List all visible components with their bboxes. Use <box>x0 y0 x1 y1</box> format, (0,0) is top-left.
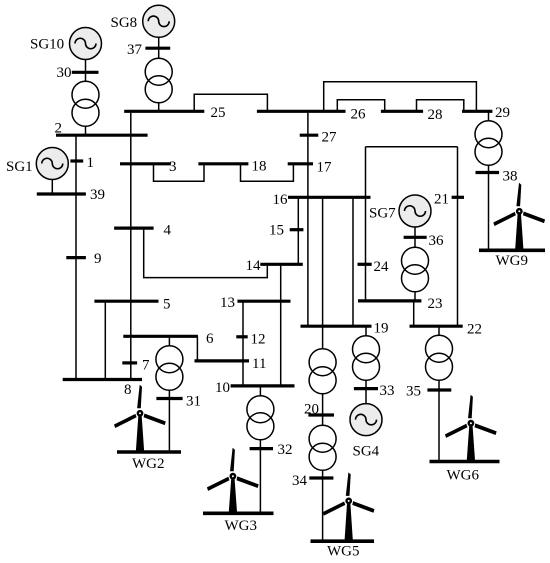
wire T29-38 to bus38 <box>488 165 490 172</box>
bus 5 <box>94 300 158 303</box>
transformer 37-25 <box>145 58 172 103</box>
svg-text:2: 2 <box>55 121 63 137</box>
svg-text:22: 22 <box>467 321 482 337</box>
generator SG7 <box>399 195 431 227</box>
svg-text:35: 35 <box>406 384 421 400</box>
wire bus37 to T37-25 <box>158 48 160 58</box>
wire 16-21 loop top <box>366 146 458 148</box>
wire SG1 to bus39 <box>51 180 53 195</box>
bus 2 <box>56 134 148 137</box>
svg-text:37: 37 <box>127 42 143 58</box>
wind turbine WG9 <box>493 183 545 251</box>
svg-text:25: 25 <box>211 105 226 121</box>
wire 25-2-3-4-5-6-7-8 column <box>130 111 132 379</box>
wire 21-22 right column <box>457 147 459 326</box>
wire bus22 to T22-35 <box>438 326 440 335</box>
bus 22 <box>410 325 463 328</box>
bus 14 <box>260 263 303 266</box>
svg-text:19: 19 <box>374 320 389 336</box>
svg-text:38: 38 <box>503 169 518 185</box>
svg-text:24: 24 <box>374 259 390 275</box>
WG6 base <box>430 460 500 464</box>
wire bus19 to T19-33 <box>365 326 367 336</box>
bus 18 <box>198 162 248 165</box>
svg-text:17: 17 <box>317 160 333 176</box>
wire SG10 to bus30 <box>85 60 87 73</box>
svg-text:32: 32 <box>278 442 293 458</box>
svg-text:11: 11 <box>252 356 266 372</box>
svg-text:8: 8 <box>124 382 132 398</box>
wire T6-31 to bus31 <box>168 390 170 398</box>
transformer 19-33 <box>353 336 380 381</box>
wire 25-26 <box>194 94 267 111</box>
svg-text:33: 33 <box>380 383 395 399</box>
wire T10-32 to bus32 <box>259 440 261 449</box>
bus 31 <box>156 397 182 400</box>
bus 25 <box>124 110 204 113</box>
svg-text:28: 28 <box>428 107 443 123</box>
wire 4-14 <box>144 228 268 278</box>
transformer 29-38 <box>475 121 502 166</box>
bus 8 <box>63 378 142 381</box>
wire bus30 to T30-2 <box>85 72 87 81</box>
wire 2-1-39-9-8 left column <box>75 135 77 379</box>
bus 13 <box>237 300 290 303</box>
wire bus6 to T6-31 <box>168 336 170 345</box>
wire T30-2 to bus2 <box>85 126 87 135</box>
svg-text:26: 26 <box>351 107 367 123</box>
wire 16-19 <box>322 197 324 326</box>
WG3 base <box>203 511 274 515</box>
bus 21 <box>452 196 464 199</box>
bus 39 <box>37 192 86 195</box>
bus 1 <box>70 159 83 162</box>
WG9 base <box>479 249 545 253</box>
transformer 22-35 <box>426 335 453 380</box>
transformer 19-20 <box>309 349 336 394</box>
svg-text:30: 30 <box>57 65 72 81</box>
svg-text:23: 23 <box>428 296 443 312</box>
wind turbine WG3 <box>207 448 259 514</box>
svg-text:SG1: SG1 <box>6 159 33 175</box>
svg-text:WG9: WG9 <box>496 253 529 269</box>
wire 3-18 <box>154 164 205 182</box>
bus 19 <box>301 325 372 328</box>
wire 28-29 <box>417 100 464 112</box>
wire T19-20 to bus20 <box>322 394 324 415</box>
transformer 30-2 <box>72 81 99 126</box>
svg-text:13: 13 <box>220 295 235 311</box>
wire SG7 to bus36 <box>414 227 416 237</box>
wire T36-23 to bus23 <box>414 292 416 301</box>
bus 26 <box>257 110 346 113</box>
wind turbine WG2 <box>114 385 166 452</box>
WG2 base <box>117 450 181 454</box>
svg-text:3: 3 <box>169 159 177 175</box>
bus 20 <box>308 413 334 416</box>
wire T22-35 to bus35 <box>438 380 440 390</box>
wire bus35 to WG6 base <box>438 390 440 462</box>
svg-text:9: 9 <box>94 251 102 267</box>
wire 16-19 second <box>352 197 354 326</box>
svg-text:WG5: WG5 <box>327 543 360 559</box>
bus 6 <box>123 335 198 338</box>
svg-text:14: 14 <box>246 258 262 274</box>
wire T37-25 to bus25 <box>158 103 160 112</box>
bus 4 <box>114 227 154 230</box>
bus 33 <box>354 387 378 390</box>
bus 37 <box>145 47 170 50</box>
bus 11 <box>195 359 250 362</box>
svg-text:5: 5 <box>163 296 171 312</box>
wire 14-13-10 <box>280 264 282 386</box>
bus 3 <box>120 162 171 165</box>
wire bus10 to T10-32 <box>259 386 261 396</box>
svg-text:34: 34 <box>292 473 308 489</box>
svg-text:1: 1 <box>87 155 95 171</box>
generator SG4 <box>350 404 382 436</box>
transformer 36-23 <box>402 247 429 292</box>
generator SG8 <box>143 5 175 37</box>
svg-text:SG10: SG10 <box>30 37 64 53</box>
WG5 base <box>311 539 375 543</box>
wire bus29 to T29-38 <box>488 111 490 120</box>
bus 17 <box>288 162 313 165</box>
wire bus32 to WG3 base <box>259 449 261 514</box>
bus 34 <box>309 476 333 479</box>
bus 12 <box>236 335 247 338</box>
bus 36 <box>404 236 427 239</box>
bus 28 <box>381 110 423 113</box>
wire T20-34 to bus34 <box>322 470 324 478</box>
svg-text:31: 31 <box>186 394 201 410</box>
bus 16 <box>288 196 371 199</box>
bus 23 <box>358 299 421 302</box>
transformer 6-31 <box>156 346 183 391</box>
generator SG1 <box>36 148 68 180</box>
svg-text:39: 39 <box>90 187 105 203</box>
bus 30 <box>72 71 99 74</box>
bus 32 <box>250 447 273 450</box>
wind turbine WG6 <box>445 395 497 462</box>
svg-text:21: 21 <box>434 192 449 208</box>
wire SG8 to bus37 <box>158 37 160 48</box>
svg-text:SG4: SG4 <box>353 444 380 460</box>
svg-text:SG7: SG7 <box>369 206 396 222</box>
svg-text:WG6: WG6 <box>447 468 480 484</box>
wire 18-17 <box>241 164 294 182</box>
bus 7 <box>122 361 137 364</box>
wire bus33 to SG4 <box>365 389 367 404</box>
bus 9 <box>66 256 86 259</box>
transformer 20-34 <box>309 425 336 470</box>
svg-text:27: 27 <box>322 130 338 146</box>
svg-text:6: 6 <box>206 331 214 347</box>
svg-text:SG8: SG8 <box>111 15 138 31</box>
wire bus20 to T20-34 <box>322 415 324 425</box>
svg-text:10: 10 <box>215 380 230 396</box>
wire 16-15-14 <box>297 197 299 264</box>
wire bus36 to T36-23 <box>414 237 416 247</box>
wire 26-29 outer <box>324 82 477 112</box>
svg-text:4: 4 <box>164 223 172 239</box>
wind turbine WG5 <box>323 472 375 541</box>
wire 5-8 <box>104 301 106 379</box>
bus 15 <box>290 228 304 231</box>
bus 24 <box>358 263 372 266</box>
wire 26-28 <box>337 100 384 112</box>
generator SG10 <box>70 28 102 60</box>
svg-text:20: 20 <box>304 402 319 418</box>
svg-text:WG3: WG3 <box>225 518 258 534</box>
svg-text:16: 16 <box>273 192 289 208</box>
wire bus38 to WG9 base <box>488 173 490 251</box>
wire 6-11 <box>196 336 198 361</box>
wire T19-33 to bus33 <box>365 380 367 388</box>
wire 16-24-23 <box>365 147 367 301</box>
wire 26-27-17-16-19 column <box>307 111 309 326</box>
svg-text:36: 36 <box>429 233 445 249</box>
wire bus34 to WG5 base <box>322 478 324 541</box>
svg-text:18: 18 <box>252 159 267 175</box>
bus 38 <box>476 171 500 174</box>
svg-text:29: 29 <box>495 105 510 121</box>
bus 27 <box>300 134 319 137</box>
svg-text:WG2: WG2 <box>132 456 165 472</box>
svg-text:12: 12 <box>251 332 266 348</box>
bus 35 <box>427 388 451 391</box>
bus 29 <box>462 110 492 113</box>
transformer 10-32 <box>247 396 274 440</box>
wire 13-12-11-10 <box>242 301 244 386</box>
wire bus31 to WG2 base <box>168 399 170 453</box>
wire 23-22 <box>413 301 415 326</box>
svg-text:7: 7 <box>142 357 150 373</box>
wire bus19 to T19-20 <box>322 326 324 349</box>
svg-text:15: 15 <box>269 223 284 239</box>
bus 10 <box>231 384 295 387</box>
